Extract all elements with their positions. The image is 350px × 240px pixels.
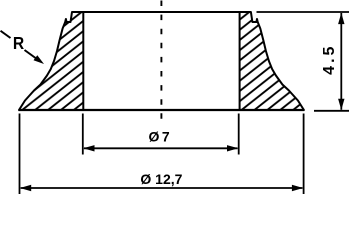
arrow Ø12,7 left: [20, 185, 31, 191]
arrow 4.5 up: [338, 13, 344, 24]
svg-text:Ø 12,7: Ø 12,7: [140, 171, 182, 187]
svg-text:4.5: 4.5: [321, 44, 338, 75]
R leader tick from edge: [1, 31, 11, 38]
extension line Ø7 left: [82, 114, 84, 155]
svg-text:R: R: [13, 33, 24, 53]
bottom edge (baseline) of part: [19, 109, 305, 111]
arrow Ø7 right: [227, 145, 238, 151]
extension line 4.5 top: [257, 11, 350, 13]
extension line Ø12,7 right: [303, 114, 305, 195]
dimension line Ø12,7: [21, 187, 303, 189]
extension line 4.5 bottom: [314, 110, 349, 112]
arrow 4.5 down: [338, 99, 344, 110]
dimension line Ø7: [84, 147, 238, 149]
top edge of part: [72, 11, 251, 13]
dimension line 4.5: [340, 13, 342, 110]
extension line Ø7 right: [238, 114, 240, 155]
arrow Ø7 left: [83, 145, 94, 151]
svg-text:Ø7: Ø7: [149, 128, 172, 144]
arrow Ø12,7 right: [292, 185, 303, 191]
extension line Ø12,7 left: [19, 114, 21, 195]
vertical centerline (dashed): [160, 1, 162, 122]
R leader arrow to flare curve: [25, 50, 40, 61]
grommet right wall cross-section (hatched): [240, 12, 304, 110]
R leader arrowhead: [34, 55, 45, 64]
grommet left wall cross-section (hatched): [19, 12, 83, 110]
